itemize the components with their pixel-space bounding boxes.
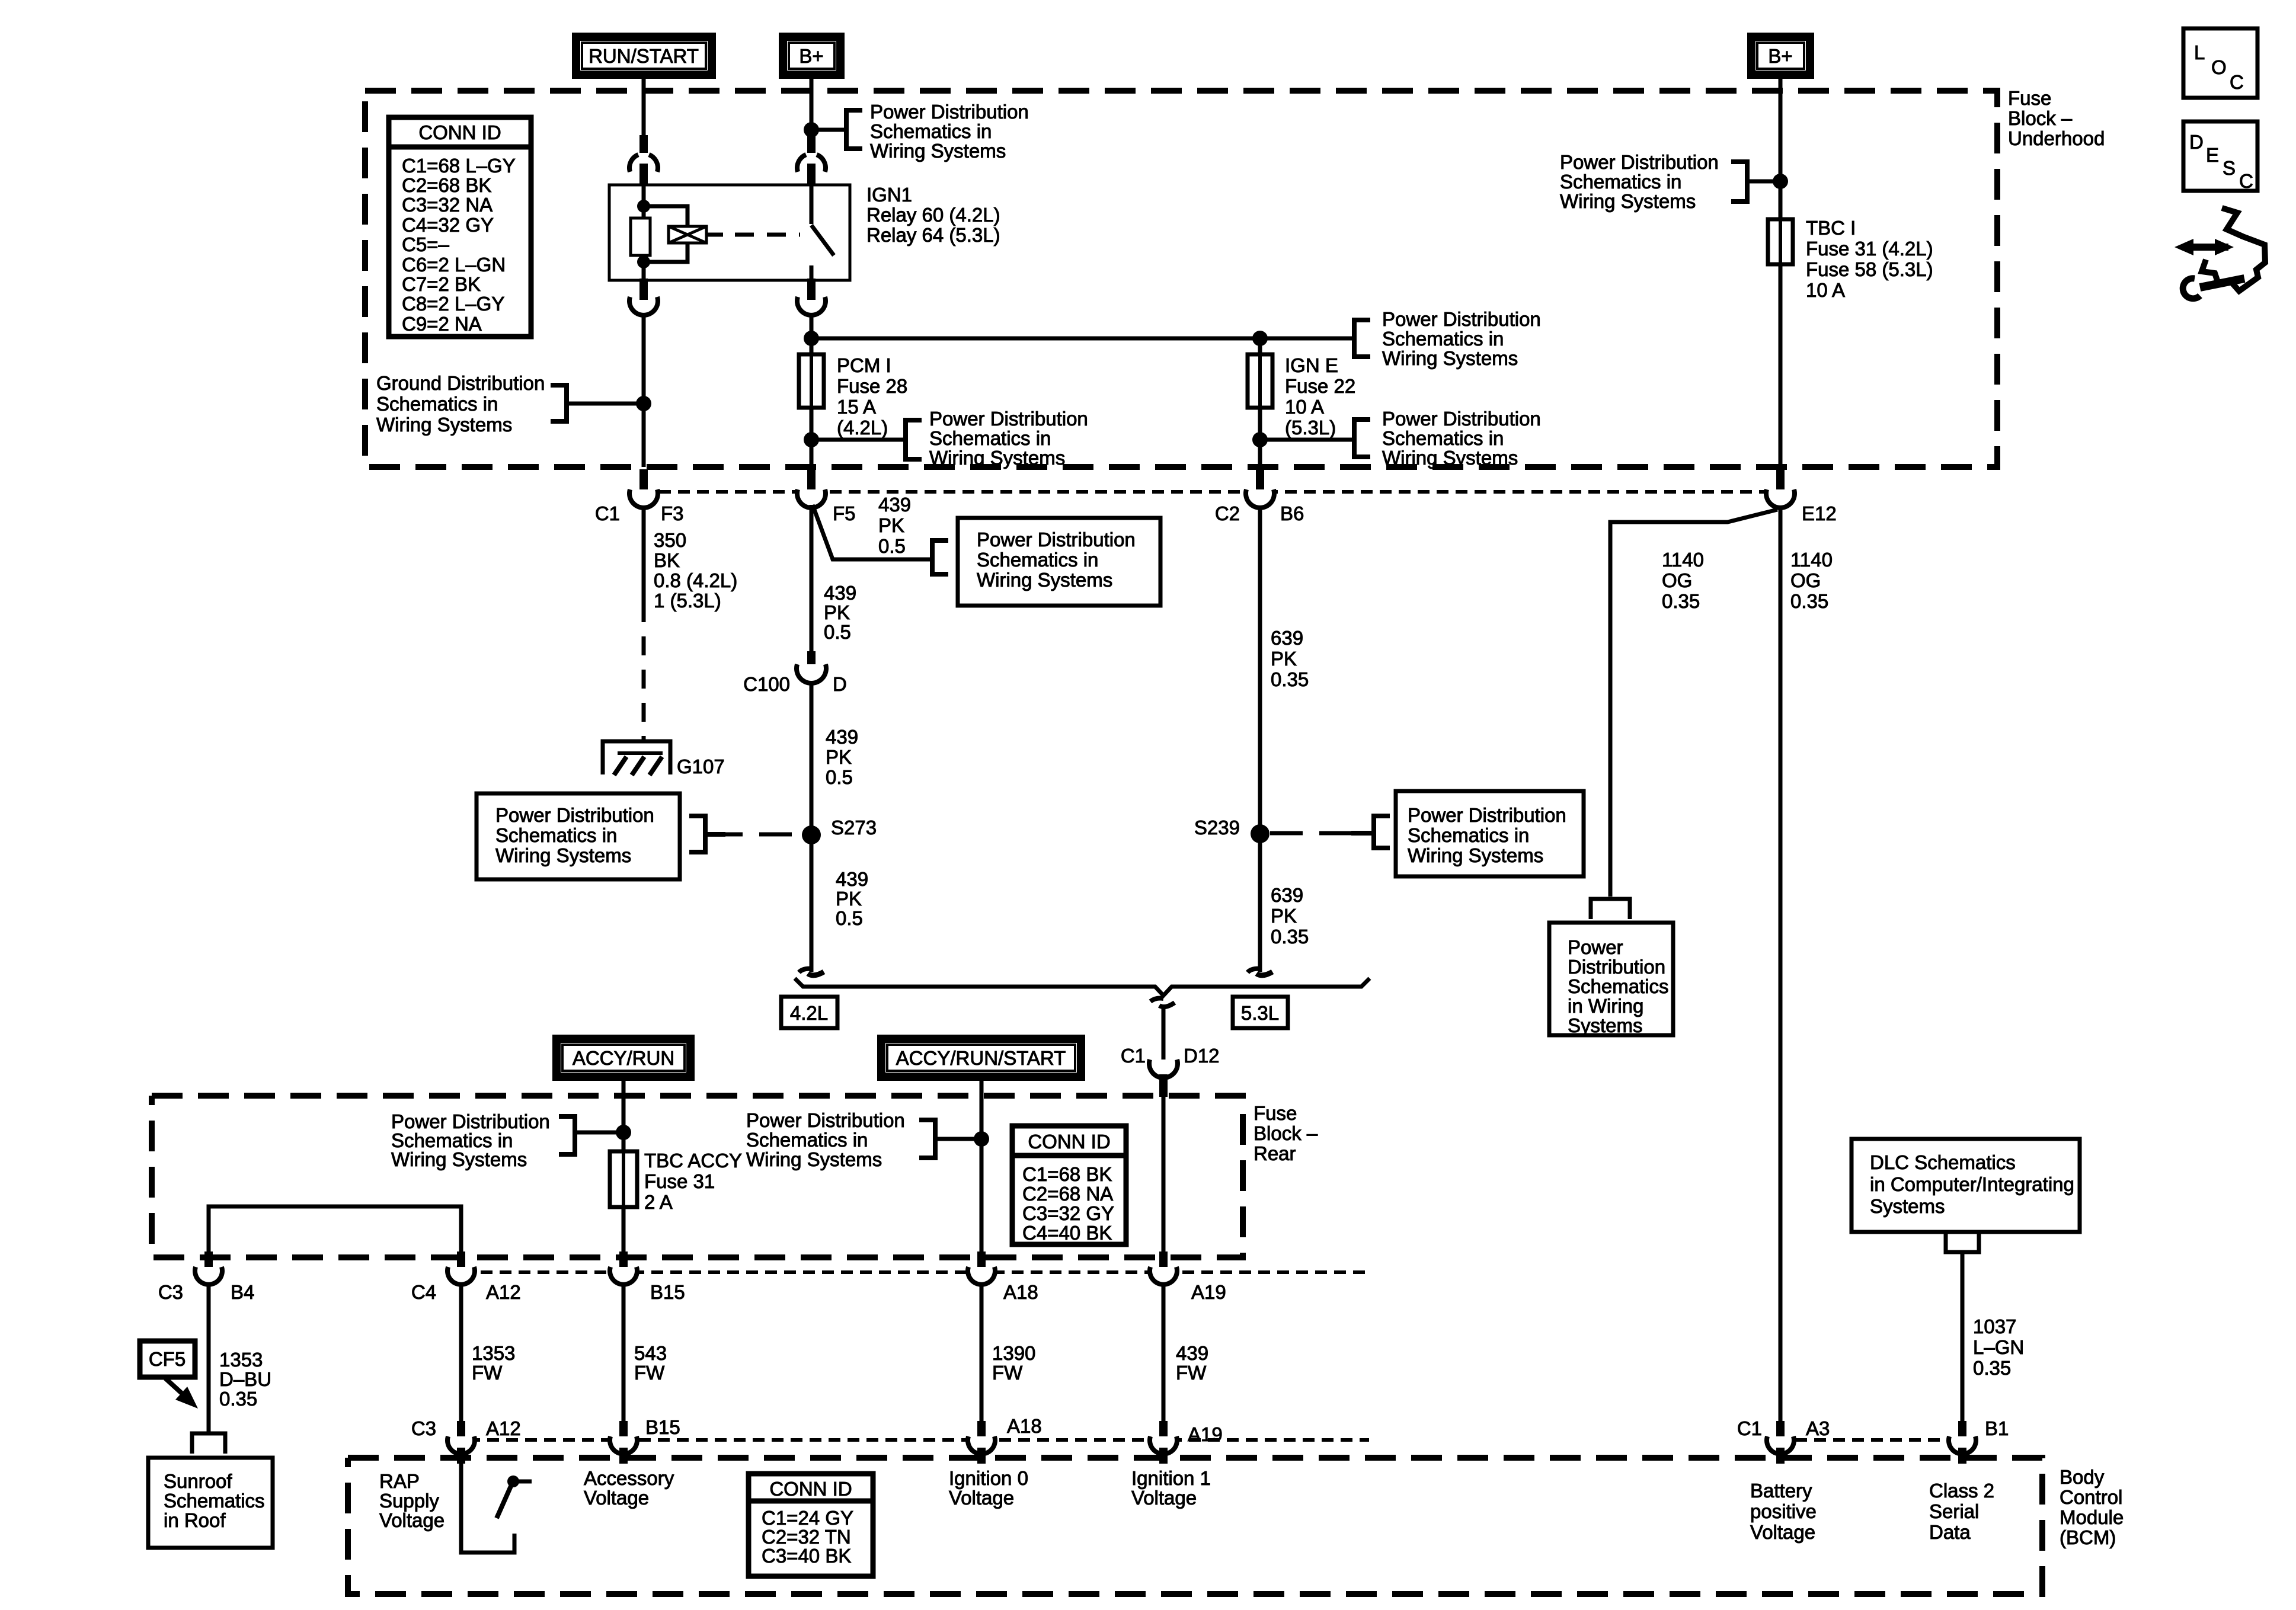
svg-text:C9=2 NA: C9=2 NA xyxy=(402,313,482,335)
RAP switch inside BCM xyxy=(461,1451,532,1553)
stub B1 xyxy=(1958,1421,1966,1438)
svg-text:S239: S239 xyxy=(1194,817,1240,838)
icon box DESC xyxy=(2183,121,2257,192)
svg-text:CONN ID: CONN ID xyxy=(418,121,501,143)
svg-text:D–BU: D–BU xyxy=(219,1368,271,1390)
connector cup A3 xyxy=(1767,1436,1794,1454)
svg-text:C: C xyxy=(2230,71,2244,93)
fuse IGN E Fuse 22 10A xyxy=(1248,354,1272,408)
connector cup A12 row2 xyxy=(447,1436,475,1454)
svg-text:OG: OG xyxy=(1662,569,1692,591)
label ground distribution schematics xyxy=(376,372,545,436)
svg-text:0.5: 0.5 xyxy=(824,621,851,643)
svg-text:10 A: 10 A xyxy=(1285,396,1324,418)
svg-text:Wiring Systems: Wiring Systems xyxy=(929,447,1065,469)
wire ACCY/RUN to fuse TBC ACCY xyxy=(622,1081,626,1151)
reference bracket power distribution (S239) xyxy=(1374,816,1390,848)
connector cup B15 row2 xyxy=(610,1436,637,1454)
label Fuse Block - Rear xyxy=(1253,1102,1318,1164)
svg-text:Fuse 58 (5.3L): Fuse 58 (5.3L) xyxy=(1806,258,1933,280)
icon vehicle with arrow and wrench xyxy=(2175,208,2265,299)
svg-text:543: 543 xyxy=(634,1342,667,1364)
reference bracket ground distribution xyxy=(551,385,567,421)
svg-text:F5: F5 xyxy=(833,502,856,524)
wire 439 PK to C100 xyxy=(810,505,814,651)
svg-text:Underhood: Underhood xyxy=(2008,127,2105,149)
fuse PCM I Fuse 28 15A xyxy=(799,354,824,408)
svg-text:B+: B+ xyxy=(799,45,823,67)
label RAP Supply Voltage xyxy=(379,1470,445,1531)
stub B4 row1 xyxy=(204,1251,213,1268)
svg-text:Fuse: Fuse xyxy=(2008,87,2051,109)
stub at C100 xyxy=(807,651,816,667)
arrow CF5 to wire xyxy=(165,1378,186,1397)
half connector to sunroof box xyxy=(192,1433,225,1454)
wire 1353 FW xyxy=(459,1284,463,1426)
svg-text:Block –: Block – xyxy=(2008,107,2073,129)
svg-text:F3: F3 xyxy=(661,502,684,524)
stub B15 row2 xyxy=(619,1421,628,1438)
svg-text:CONN ID: CONN ID xyxy=(1028,1131,1110,1153)
svg-text:2 A: 2 A xyxy=(644,1191,673,1213)
junction dot resistor top xyxy=(637,200,650,213)
svg-text:Wiring Systems: Wiring Systems xyxy=(495,844,631,866)
label power distribution (ACCY/RUN) xyxy=(391,1110,550,1170)
svg-text:FW: FW xyxy=(992,1362,1023,1384)
svg-text:TBC ACCY: TBC ACCY xyxy=(644,1150,742,1172)
svg-text:IGN1: IGN1 xyxy=(866,184,912,206)
in-line connector C1 pin D12 xyxy=(1149,1060,1178,1078)
relay switch contacts xyxy=(810,185,814,224)
label wire 1037 L-GN 0.35 xyxy=(1973,1315,2024,1379)
svg-text:Wiring Systems: Wiring Systems xyxy=(1560,190,1696,212)
svg-text:C100: C100 xyxy=(743,673,790,695)
stub A12 row2 xyxy=(457,1421,465,1438)
svg-text:0.35: 0.35 xyxy=(1790,590,1828,612)
wire through fuse IGN E xyxy=(1258,338,1262,467)
svg-text:C4=32 GY: C4=32 GY xyxy=(402,214,494,236)
power mode label ACCY/RUN xyxy=(557,1039,690,1077)
svg-text:C3=40 BK: C3=40 BK xyxy=(762,1545,851,1567)
svg-text:Body: Body xyxy=(2060,1466,2105,1488)
svg-text:L–GN: L–GN xyxy=(1973,1336,2024,1358)
svg-text:Wiring Systems: Wiring Systems xyxy=(977,569,1112,591)
stub fuse block pin B6 xyxy=(1256,469,1264,489)
svg-text:0.5: 0.5 xyxy=(878,535,906,557)
label wire 1353 D-BU 0.35 xyxy=(219,1349,271,1410)
stub fuse block pin F3 xyxy=(639,469,648,489)
wire 350 BK xyxy=(642,508,646,603)
svg-text:(BCM): (BCM) xyxy=(2060,1526,2116,1548)
svg-text:0.5: 0.5 xyxy=(836,907,863,929)
label wire 439 PK 0.5 (below C100) xyxy=(826,726,858,788)
stub relay pin 3 xyxy=(639,279,648,300)
connector cup A18 row1 xyxy=(968,1267,995,1285)
svg-text:Wiring Systems: Wiring Systems xyxy=(391,1148,527,1170)
svg-text:S: S xyxy=(2223,157,2236,179)
label wire 439 PK 0.5 (branch) xyxy=(878,494,911,557)
reference tag CF5 xyxy=(140,1341,195,1377)
junction to power distribution ref xyxy=(804,122,819,137)
svg-text:Wiring Systems: Wiring Systems xyxy=(746,1148,882,1170)
wire to bracket xyxy=(811,128,846,132)
svg-text:Fuse 28: Fuse 28 xyxy=(837,375,907,397)
svg-text:PK: PK xyxy=(836,888,862,910)
connector cup below relay (coil side) xyxy=(629,297,658,315)
wire 439 FW xyxy=(1162,1284,1166,1426)
svg-text:C3=32 NA: C3=32 NA xyxy=(402,194,493,216)
half connector below DLC box xyxy=(1946,1232,1979,1252)
power mode label ACCY/RUN/START xyxy=(881,1039,1081,1077)
svg-text:E12: E12 xyxy=(1802,502,1837,524)
svg-text:C1=68 BK: C1=68 BK xyxy=(1022,1163,1112,1185)
reference bracket power distribution (ACCY/RUN/START) xyxy=(919,1120,935,1158)
svg-text:Fuse 22: Fuse 22 xyxy=(1285,375,1355,397)
wire relay to fuse block exit F3 xyxy=(642,315,646,467)
svg-text:5.3L: 5.3L xyxy=(1241,1002,1279,1024)
relay coil xyxy=(644,206,687,226)
reference bracket power distribution (IGN E bottom) xyxy=(1354,420,1370,457)
svg-text:Power Distribution: Power Distribution xyxy=(495,804,654,826)
svg-text:1140: 1140 xyxy=(1662,549,1704,571)
svg-text:in Wiring: in Wiring xyxy=(1568,995,1643,1017)
stub A18 row2 xyxy=(977,1421,986,1438)
stub A12 row1 xyxy=(457,1251,465,1268)
svg-text:Wiring Systems: Wiring Systems xyxy=(1382,347,1518,369)
svg-text:Data: Data xyxy=(1929,1521,1971,1543)
svg-text:439: 439 xyxy=(878,494,911,516)
fuse block - rear dashed outline xyxy=(152,1096,1243,1257)
svg-text:Voltage: Voltage xyxy=(584,1487,649,1509)
svg-text:Serial: Serial xyxy=(1929,1500,1979,1522)
svg-text:C2=68 NA: C2=68 NA xyxy=(1022,1183,1113,1205)
svg-text:Schematics in: Schematics in xyxy=(1382,328,1504,350)
reference box power distribution (S273) xyxy=(477,793,680,879)
reference bracket power distribution (S273) xyxy=(689,816,705,852)
reference box power distribution (S239) xyxy=(1396,791,1584,876)
connector cup A12 row1 xyxy=(447,1267,475,1285)
label Class 2 Serial Data xyxy=(1929,1480,1994,1543)
svg-text:Sunroof: Sunroof xyxy=(164,1470,232,1492)
junction to power distribution ref (right) xyxy=(1773,174,1788,189)
svg-text:C2=68 BK: C2=68 BK xyxy=(402,174,491,196)
label power distribution (IGN E top) xyxy=(1382,308,1541,369)
svg-text:350: 350 xyxy=(654,529,686,551)
junction ACCY/RUN ref xyxy=(616,1125,631,1140)
svg-text:C3: C3 xyxy=(158,1281,183,1303)
svg-text:RUN/START: RUN/START xyxy=(589,45,699,67)
label Fuse Block - Underhood xyxy=(2008,87,2105,149)
svg-text:DLC Schematics: DLC Schematics xyxy=(1870,1151,2016,1173)
svg-text:0.35: 0.35 xyxy=(219,1388,257,1410)
svg-text:ACCY/RUN: ACCY/RUN xyxy=(573,1047,674,1069)
connector cup B15 row1 xyxy=(610,1267,637,1285)
stub A3 xyxy=(1776,1421,1785,1438)
label DLC schematics xyxy=(1870,1151,2074,1217)
svg-text:Wiring Systems: Wiring Systems xyxy=(870,140,1006,162)
svg-text:CONN ID: CONN ID xyxy=(769,1478,852,1500)
svg-text:0.35: 0.35 xyxy=(1271,668,1309,690)
label Ignition 1 Voltage xyxy=(1131,1467,1211,1509)
svg-text:Wiring Systems: Wiring Systems xyxy=(1382,447,1518,469)
svg-text:C5=–: C5=– xyxy=(402,233,449,255)
label wire 439 FW xyxy=(1176,1342,1208,1384)
svg-text:OG: OG xyxy=(1790,569,1821,591)
ground G107 xyxy=(603,741,670,775)
svg-text:Power Distribution: Power Distribution xyxy=(1382,408,1541,430)
stub A18 row1 xyxy=(977,1251,986,1268)
stub B1 into BCM xyxy=(1958,1448,1966,1464)
svg-text:E: E xyxy=(2206,144,2219,166)
CONN ID table - fuse block underhood xyxy=(389,117,531,337)
merge brace 4.2L/5.3L xyxy=(795,978,1370,996)
stub A19 row1 xyxy=(1159,1251,1168,1268)
svg-text:B15: B15 xyxy=(650,1281,685,1303)
svg-text:L: L xyxy=(2194,41,2205,63)
svg-text:B+: B+ xyxy=(1768,45,1792,67)
stub A12 row2 into BCM xyxy=(457,1448,465,1464)
svg-text:in Roof: in Roof xyxy=(164,1509,226,1531)
wire B+ to relay connector xyxy=(810,79,814,135)
wire relay output xyxy=(810,315,814,338)
label relay IGN1 xyxy=(866,184,1000,246)
label wire 639 PK 0.35 (below S239) xyxy=(1271,884,1309,948)
svg-text:C6=2 L–GN: C6=2 L–GN xyxy=(402,254,506,276)
junction ground distribution ref xyxy=(636,396,651,411)
svg-text:D12: D12 xyxy=(1184,1045,1220,1067)
svg-text:B15: B15 xyxy=(645,1416,680,1438)
svg-text:B1: B1 xyxy=(1985,1417,2009,1439)
wire fuse block rear to B4 and A12 xyxy=(209,1206,461,1269)
svg-text:C: C xyxy=(2239,170,2253,192)
svg-text:B4: B4 xyxy=(231,1281,254,1303)
merged wire curl xyxy=(1150,998,1163,1001)
svg-text:PK: PK xyxy=(1271,648,1297,670)
svg-text:Schematics in: Schematics in xyxy=(977,549,1098,571)
stub A19 row2 into BCM xyxy=(1159,1448,1168,1464)
svg-text:A18: A18 xyxy=(1007,1415,1042,1437)
connector cup E12 xyxy=(1766,489,1795,508)
svg-text:C1=68 L–GY: C1=68 L–GY xyxy=(402,155,516,177)
merged wire to D12 xyxy=(1162,1007,1166,1067)
wire ACCY/RUN/START to A18 xyxy=(980,1081,984,1251)
wire RUN/START to relay connector xyxy=(642,79,646,135)
svg-text:Module: Module xyxy=(2060,1506,2124,1528)
svg-text:Rear: Rear xyxy=(1253,1142,1296,1164)
svg-text:1390: 1390 xyxy=(992,1342,1035,1364)
svg-text:15 A: 15 A xyxy=(837,396,876,418)
svg-text:C4=40 BK: C4=40 BK xyxy=(1022,1222,1112,1244)
svg-text:Distribution: Distribution xyxy=(1568,956,1665,978)
icon box LOC xyxy=(2183,28,2257,98)
in-line connector dotted line (BCM right) xyxy=(1795,1438,1948,1442)
svg-text:0.5: 0.5 xyxy=(826,766,853,788)
stub below D12 xyxy=(1159,1074,1168,1097)
fuse TBC ACCY Fuse 31 2A xyxy=(610,1151,637,1207)
dashed ref from S273 xyxy=(710,833,802,837)
svg-text:0.35: 0.35 xyxy=(1973,1357,2011,1379)
svg-text:1353: 1353 xyxy=(472,1342,515,1364)
svg-text:S273: S273 xyxy=(831,817,877,838)
svg-text:4.2L: 4.2L xyxy=(790,1002,828,1024)
junction IGN E branch xyxy=(1252,331,1268,346)
stub relay pin 5 xyxy=(807,279,816,300)
wire 1140 OG battery positive to BCM xyxy=(1779,508,1783,1421)
reference box sunroof schematics xyxy=(148,1458,273,1548)
label wire 439 PK 0.5 (below S273) xyxy=(836,868,868,929)
svg-text:C7=2 BK: C7=2 BK xyxy=(402,273,481,295)
label fuse TBC ACCY xyxy=(644,1150,742,1213)
wire 1353 D-BU to sunroof xyxy=(207,1284,211,1432)
label wire 1390 FW xyxy=(992,1342,1035,1384)
bus wire to IGN E branch xyxy=(811,337,1354,341)
svg-text:439: 439 xyxy=(824,582,856,604)
svg-text:Schematics in: Schematics in xyxy=(1382,427,1504,449)
svg-text:Control: Control xyxy=(2060,1486,2122,1508)
wire end curl 5.3L branch xyxy=(1248,969,1262,972)
label power distribution (ACCY/RUN/START) xyxy=(746,1109,905,1170)
svg-text:639: 639 xyxy=(1271,884,1303,906)
svg-text:1353: 1353 xyxy=(219,1349,263,1371)
svg-text:C1: C1 xyxy=(595,502,620,524)
reference bracket power distribution (B+ top) xyxy=(846,110,862,149)
stub A18 row2 into BCM xyxy=(977,1448,986,1464)
svg-text:Block –: Block – xyxy=(1253,1122,1318,1144)
label power distribution (S273) xyxy=(495,804,654,866)
svg-text:BK: BK xyxy=(654,549,680,571)
dashed ref from S239 xyxy=(1270,831,1351,836)
svg-text:Supply: Supply xyxy=(379,1490,439,1512)
junction ACCY/RUN/START ref xyxy=(974,1131,989,1147)
reference bracket power distribution (PCM I) xyxy=(906,420,922,459)
svg-text:A12: A12 xyxy=(486,1281,521,1303)
wire 1037 L-GN class 2 serial data xyxy=(1961,1252,1965,1421)
in-line connector dotted line (BCM row) xyxy=(468,1438,1369,1442)
wire D12 to A19 inside fuse block rear xyxy=(1162,1097,1166,1251)
svg-text:Schematics in: Schematics in xyxy=(376,393,498,415)
stub fuse block pin F5 xyxy=(807,469,816,489)
CONN ID table - fuse block rear xyxy=(1012,1126,1126,1244)
svg-text:Voltage: Voltage xyxy=(379,1509,445,1531)
svg-text:C8=2 L–GY: C8=2 L–GY xyxy=(402,293,504,315)
svg-text:(4.2L): (4.2L) xyxy=(837,417,888,438)
label sunroof schematics in roof xyxy=(164,1470,265,1531)
svg-text:Wiring Systems: Wiring Systems xyxy=(1408,844,1543,866)
svg-text:TBC I: TBC I xyxy=(1806,217,1856,239)
svg-text:Wiring Systems: Wiring Systems xyxy=(376,414,512,436)
svg-text:C1: C1 xyxy=(1737,1417,1762,1439)
wire B+ right to E12 xyxy=(1779,79,1783,467)
label fuse IGN E xyxy=(1285,354,1355,438)
svg-text:Relay 60 (4.2L): Relay 60 (4.2L) xyxy=(866,204,1000,226)
svg-text:FW: FW xyxy=(1176,1362,1207,1384)
svg-text:0.8 (4.2L): 0.8 (4.2L) xyxy=(654,569,737,591)
svg-text:Power Distribution: Power Distribution xyxy=(1408,804,1566,826)
svg-text:1037: 1037 xyxy=(1973,1315,2016,1337)
svg-text:FW: FW xyxy=(634,1362,665,1384)
wire 350 BK dashed continuation xyxy=(642,603,646,742)
reference bracket power distribution (B+ right) xyxy=(1731,162,1747,201)
svg-text:Voltage: Voltage xyxy=(1750,1521,1815,1543)
label fuse PCM I xyxy=(837,354,907,438)
connector cup B4 row1 xyxy=(195,1267,222,1285)
svg-text:Power Distribution: Power Distribution xyxy=(929,408,1088,430)
svg-text:Battery: Battery xyxy=(1750,1480,1812,1502)
variant box 4.2L xyxy=(781,997,837,1028)
wire end curl 4.2L branch xyxy=(799,969,813,972)
relay resistor xyxy=(631,218,650,255)
connector cup below relay (switch side) xyxy=(797,297,826,315)
connector cup A19 row2 xyxy=(1150,1436,1177,1454)
svg-text:439: 439 xyxy=(836,868,868,890)
label power distribution (F5 branch) xyxy=(977,529,1136,591)
svg-text:10 A: 10 A xyxy=(1806,279,1845,301)
svg-text:Voltage: Voltage xyxy=(949,1487,1014,1509)
svg-text:C3: C3 xyxy=(411,1417,436,1439)
label wire 543 FW xyxy=(634,1342,667,1384)
label power distribution (PCM I) xyxy=(929,408,1088,469)
reference bracket power distribution (ACCY/RUN) xyxy=(559,1116,575,1154)
svg-text:A19: A19 xyxy=(1188,1423,1223,1445)
svg-text:PK: PK xyxy=(878,514,904,536)
svg-text:FW: FW xyxy=(472,1362,503,1384)
label power distribution (B+ right) xyxy=(1560,151,1719,212)
svg-text:C2: C2 xyxy=(1215,502,1240,524)
in-line connector dotted line (rear row) xyxy=(462,1270,1369,1274)
label wire 350 BK xyxy=(654,529,737,612)
stub B15 row2 into BCM xyxy=(619,1448,628,1464)
svg-text:Fuse: Fuse xyxy=(1253,1102,1297,1124)
svg-text:Schematics: Schematics xyxy=(1568,975,1669,997)
wire through fuse PCM I xyxy=(810,338,814,467)
reference bracket power distribution (F5 branch) xyxy=(932,540,948,574)
wire 543 FW xyxy=(622,1284,626,1426)
reference box power distribution (1140 OG) xyxy=(1549,923,1673,1035)
svg-text:Ignition 0: Ignition 0 xyxy=(949,1467,1028,1489)
wire 439 PK to S273 and merge xyxy=(810,683,814,972)
label wire 1140 OG 0.35 (main) xyxy=(1790,549,1833,612)
svg-text:1 (5.3L): 1 (5.3L) xyxy=(654,590,721,612)
svg-text:PK: PK xyxy=(1271,905,1297,927)
wire 439 PK branch to ref xyxy=(813,505,930,559)
connector cup A19 row1 xyxy=(1150,1267,1177,1285)
label power distribution (IGN E bottom) xyxy=(1382,408,1541,469)
svg-text:positive: positive xyxy=(1750,1500,1817,1522)
relay actuator dashed link xyxy=(706,233,723,237)
svg-text:439: 439 xyxy=(1176,1342,1208,1364)
svg-text:C4: C4 xyxy=(411,1281,436,1303)
svg-text:Relay 64 (5.3L): Relay 64 (5.3L) xyxy=(866,224,1000,246)
power mode label RUN/START xyxy=(576,37,712,75)
svg-text:Power Distribution: Power Distribution xyxy=(746,1109,905,1131)
wire 639 PK to S239 and merge xyxy=(1258,508,1262,972)
svg-text:A3: A3 xyxy=(1806,1417,1830,1439)
svg-text:C1: C1 xyxy=(1121,1045,1146,1067)
connector cup B1 xyxy=(1949,1436,1976,1454)
svg-text:Schematics in: Schematics in xyxy=(495,824,617,846)
svg-text:Voltage: Voltage xyxy=(1131,1487,1197,1509)
label wire 1140 OG 0.35 (branch) xyxy=(1662,549,1704,612)
label Ignition 0 Voltage xyxy=(949,1467,1028,1509)
half connector to power distribution box xyxy=(1591,899,1630,919)
svg-text:0.35: 0.35 xyxy=(1662,590,1700,612)
svg-text:A19: A19 xyxy=(1191,1281,1226,1303)
stub at relay pin 1 xyxy=(639,135,648,153)
svg-text:D: D xyxy=(833,673,847,695)
wire to ground distribution bracket xyxy=(567,402,644,406)
splice S239 xyxy=(1251,824,1269,843)
svg-text:Schematics: Schematics xyxy=(164,1490,265,1512)
